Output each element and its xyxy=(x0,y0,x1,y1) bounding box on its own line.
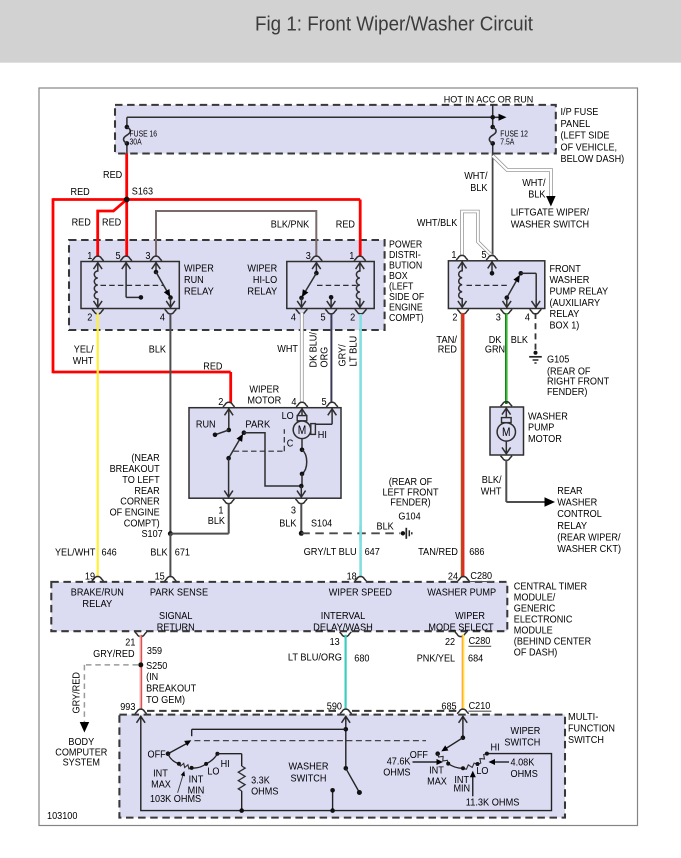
svg-text:GRY/LT BLU: GRY/LT BLU xyxy=(304,547,357,558)
svg-text:4: 4 xyxy=(160,312,166,323)
svg-text:30A: 30A xyxy=(130,137,143,146)
svg-text:RELAY: RELAY xyxy=(557,521,587,532)
svg-text:4: 4 xyxy=(291,312,297,323)
svg-text:FENDER): FENDER) xyxy=(390,498,430,509)
svg-text:RUN: RUN xyxy=(196,420,216,431)
svg-text:S163: S163 xyxy=(132,187,154,198)
svg-text:103K OHMS: 103K OHMS xyxy=(150,794,201,805)
svg-text:BLK: BLK xyxy=(208,516,225,527)
svg-text:WASHER: WASHER xyxy=(550,275,590,286)
svg-text:C280: C280 xyxy=(470,571,492,582)
svg-text:HOT IN ACC OR RUN: HOT IN ACC OR RUN xyxy=(444,94,534,104)
svg-text:ORG: ORG xyxy=(320,347,331,368)
svg-text:BLK: BLK xyxy=(511,335,528,346)
svg-text:2: 2 xyxy=(452,312,458,323)
svg-text:MOTOR: MOTOR xyxy=(528,434,562,445)
svg-text:BLK: BLK xyxy=(149,344,166,355)
svg-text:INT: INT xyxy=(429,766,444,777)
svg-text:WHT/: WHT/ xyxy=(464,171,488,182)
svg-text:103100: 103100 xyxy=(47,811,78,822)
svg-text:BOX: BOX xyxy=(389,271,408,282)
svg-text:684: 684 xyxy=(468,654,484,665)
svg-text:5: 5 xyxy=(321,312,327,323)
svg-text:M: M xyxy=(298,423,307,437)
svg-text:BELOW DASH): BELOW DASH) xyxy=(561,154,625,165)
svg-text:647: 647 xyxy=(365,547,381,558)
svg-text:993: 993 xyxy=(120,702,136,713)
svg-text:GENERIC: GENERIC xyxy=(514,604,556,615)
svg-text:680: 680 xyxy=(354,654,370,665)
svg-text:RED: RED xyxy=(103,170,122,181)
svg-text:WIPER: WIPER xyxy=(247,263,277,274)
svg-text:FENDER): FENDER) xyxy=(547,387,587,398)
svg-text:WHT: WHT xyxy=(277,344,298,355)
svg-text:G104: G104 xyxy=(398,511,421,522)
svg-text:WHT: WHT xyxy=(481,486,502,497)
svg-text:2: 2 xyxy=(218,397,224,408)
svg-text:1: 1 xyxy=(451,250,457,261)
svg-text:TO LEFT: TO LEFT xyxy=(122,475,159,486)
svg-text:WHT/BLK: WHT/BLK xyxy=(417,218,458,229)
svg-text:OHMS: OHMS xyxy=(511,769,539,780)
svg-text:MIN: MIN xyxy=(453,784,470,795)
svg-text:MAX: MAX xyxy=(151,780,171,791)
svg-text:RED: RED xyxy=(71,187,90,198)
svg-text:WIPER SPEED: WIPER SPEED xyxy=(329,587,392,598)
svg-text:HI: HI xyxy=(491,742,500,753)
svg-text:1: 1 xyxy=(87,251,93,262)
svg-text:S250: S250 xyxy=(146,661,168,672)
svg-text:C210: C210 xyxy=(469,701,491,712)
svg-text:SIGNAL: SIGNAL xyxy=(159,611,193,622)
svg-text:(AUXILIARY: (AUXILIARY xyxy=(550,298,601,309)
svg-text:S107: S107 xyxy=(142,529,164,540)
svg-text:3: 3 xyxy=(291,506,297,517)
svg-text:INT: INT xyxy=(153,769,168,780)
svg-text:5: 5 xyxy=(481,250,487,261)
svg-text:HI: HI xyxy=(318,430,327,441)
svg-text:(IN: (IN xyxy=(146,672,158,683)
svg-text:15: 15 xyxy=(155,571,165,582)
svg-text:COMPT): COMPT) xyxy=(124,518,160,529)
svg-text:OHMS: OHMS xyxy=(383,768,411,779)
svg-text:POWER: POWER xyxy=(389,239,422,250)
svg-text:FRONT: FRONT xyxy=(550,264,581,275)
svg-text:MAX: MAX xyxy=(427,776,447,787)
svg-text:21: 21 xyxy=(125,637,135,648)
svg-text:1: 1 xyxy=(349,251,355,262)
svg-text:WASHER SWITCH: WASHER SWITCH xyxy=(511,219,589,230)
svg-text:3: 3 xyxy=(306,251,312,262)
svg-text:RELAY: RELAY xyxy=(184,286,214,297)
svg-text:BLK/PNK: BLK/PNK xyxy=(271,219,310,230)
svg-text:CONTROL: CONTROL xyxy=(557,509,602,520)
svg-text:REAR: REAR xyxy=(134,486,159,497)
svg-text:GRY/RED: GRY/RED xyxy=(93,649,135,660)
svg-text:3: 3 xyxy=(145,251,151,262)
svg-text:OF DASH): OF DASH) xyxy=(514,648,558,659)
svg-text:2: 2 xyxy=(87,312,93,323)
svg-text:BLK: BLK xyxy=(279,519,296,530)
svg-text:YEL/: YEL/ xyxy=(74,344,94,355)
svg-text:BUTION: BUTION xyxy=(389,260,422,271)
svg-text:S104: S104 xyxy=(311,519,333,530)
svg-text:YEL/WHT: YEL/WHT xyxy=(55,547,95,558)
svg-text:MODULE/: MODULE/ xyxy=(514,593,556,604)
svg-text:PARK: PARK xyxy=(245,420,270,431)
svg-text:LO: LO xyxy=(207,767,219,778)
svg-text:REAR: REAR xyxy=(557,486,582,497)
svg-text:13: 13 xyxy=(330,637,340,648)
svg-text:HI-LO: HI-LO xyxy=(253,275,278,286)
svg-text:RED: RED xyxy=(438,345,457,356)
svg-text:LT BLU/ORG: LT BLU/ORG xyxy=(288,653,342,664)
svg-text:WASHER: WASHER xyxy=(289,762,329,773)
svg-text:OFF: OFF xyxy=(410,750,428,761)
svg-text:SWITCH: SWITCH xyxy=(568,735,604,746)
svg-text:686: 686 xyxy=(469,547,485,558)
svg-text:ENGINE: ENGINE xyxy=(389,302,423,313)
svg-text:WHT: WHT xyxy=(73,356,94,367)
svg-text:OFF: OFF xyxy=(148,750,166,761)
svg-text:CENTRAL TIMER: CENTRAL TIMER xyxy=(514,582,587,593)
svg-text:(NEAR: (NEAR xyxy=(131,453,159,464)
svg-text:OF ENGINE: OF ENGINE xyxy=(110,508,160,519)
svg-text:GRY/: GRY/ xyxy=(338,344,349,366)
svg-text:WASHER PUMP: WASHER PUMP xyxy=(427,587,496,598)
svg-text:5: 5 xyxy=(116,251,122,262)
svg-text:OHMS: OHMS xyxy=(251,787,279,798)
svg-text:LO: LO xyxy=(476,766,488,777)
svg-text:PUMP: PUMP xyxy=(528,423,555,434)
svg-text:4: 4 xyxy=(291,397,297,408)
svg-text:671: 671 xyxy=(175,547,191,558)
svg-text:RED: RED xyxy=(72,218,91,229)
svg-text:I/P FUSE: I/P FUSE xyxy=(561,107,599,118)
svg-text:MULTI-: MULTI- xyxy=(568,712,598,723)
svg-text:BREAKOUT: BREAKOUT xyxy=(110,464,160,475)
svg-text:BRAKE/RUN: BRAKE/RUN xyxy=(71,587,124,598)
svg-text:Fig 1: Front Wiper/Washer Circ: Fig 1: Front Wiper/Washer Circuit xyxy=(255,13,533,36)
svg-text:BOX 1): BOX 1) xyxy=(550,320,580,331)
svg-text:RETURN: RETURN xyxy=(157,623,195,634)
svg-text:RED: RED xyxy=(203,362,222,373)
svg-text:(REAR WIPER/: (REAR WIPER/ xyxy=(557,532,620,543)
svg-text:WIPER: WIPER xyxy=(184,263,214,274)
svg-text:M: M xyxy=(502,425,511,439)
svg-text:646: 646 xyxy=(102,547,118,558)
svg-text:TAN/RED: TAN/RED xyxy=(418,547,458,558)
svg-text:4: 4 xyxy=(525,312,531,323)
svg-text:2: 2 xyxy=(350,312,356,323)
svg-text:3: 3 xyxy=(496,312,502,323)
svg-text:WASHER CKT): WASHER CKT) xyxy=(557,544,621,555)
svg-text:SWITCH: SWITCH xyxy=(291,773,327,784)
svg-text:24: 24 xyxy=(448,571,458,582)
svg-text:MOTOR: MOTOR xyxy=(247,396,281,407)
svg-text:PUMP RELAY: PUMP RELAY xyxy=(550,287,609,298)
svg-text:COMPT): COMPT) xyxy=(389,313,424,324)
svg-text:18: 18 xyxy=(347,571,357,582)
svg-text:RED: RED xyxy=(102,218,121,229)
svg-text:G105: G105 xyxy=(547,355,570,366)
svg-text:LIFTGATE WIPER/: LIFTGATE WIPER/ xyxy=(511,208,590,219)
svg-text:BLK: BLK xyxy=(528,190,545,201)
svg-text:7.5A: 7.5A xyxy=(500,137,515,146)
svg-text:5: 5 xyxy=(322,397,328,408)
svg-text:WHT/: WHT/ xyxy=(522,178,546,189)
svg-text:BLK: BLK xyxy=(150,547,167,558)
svg-text:GRY/RED: GRY/RED xyxy=(72,672,83,714)
svg-text:PARK SENSE: PARK SENSE xyxy=(150,587,209,598)
svg-text:WIPER: WIPER xyxy=(511,726,541,737)
svg-text:SWITCH: SWITCH xyxy=(504,737,540,748)
svg-text:22: 22 xyxy=(445,637,455,648)
svg-text:CORNER: CORNER xyxy=(120,497,159,508)
svg-text:19: 19 xyxy=(85,571,95,582)
svg-text:359: 359 xyxy=(147,646,163,657)
svg-text:OF VEHICLE,: OF VEHICLE, xyxy=(561,142,618,153)
svg-text:WIPER: WIPER xyxy=(455,611,485,622)
svg-text:MODULE: MODULE xyxy=(514,626,553,637)
svg-text:C: C xyxy=(287,439,294,450)
svg-text:MODE SELECT: MODE SELECT xyxy=(428,623,493,634)
svg-text:BREAKOUT: BREAKOUT xyxy=(146,684,196,695)
svg-text:4.08K: 4.08K xyxy=(511,758,535,769)
svg-text:ELECTRONIC: ELECTRONIC xyxy=(514,615,573,626)
svg-text:DK BLU/: DK BLU/ xyxy=(309,332,320,368)
svg-text:RELAY: RELAY xyxy=(82,599,112,610)
svg-text:WASHER: WASHER xyxy=(557,498,597,509)
svg-text:FUNCTION: FUNCTION xyxy=(568,724,615,735)
svg-text:RUN: RUN xyxy=(184,275,204,286)
svg-text:LO: LO xyxy=(282,411,294,422)
svg-text:DISTRI-: DISTRI- xyxy=(389,250,421,261)
svg-text:(LEFT: (LEFT xyxy=(389,281,413,292)
svg-text:HI: HI xyxy=(221,759,230,770)
svg-text:GRN: GRN xyxy=(485,345,505,356)
svg-text:INTERVAL: INTERVAL xyxy=(321,611,366,622)
svg-text:BLK/: BLK/ xyxy=(482,475,502,486)
svg-text:47.6K: 47.6K xyxy=(387,756,411,767)
svg-text:PNK/YEL: PNK/YEL xyxy=(417,654,456,665)
svg-text:SIDE OF: SIDE OF xyxy=(389,292,424,303)
svg-text:SYSTEM: SYSTEM xyxy=(63,758,100,769)
svg-text:PANEL: PANEL xyxy=(561,119,591,130)
svg-text:WIPER: WIPER xyxy=(249,384,279,395)
svg-text:BLK: BLK xyxy=(377,521,394,532)
svg-text:WASHER: WASHER xyxy=(528,411,568,422)
svg-text:LT BLU: LT BLU xyxy=(349,336,360,367)
svg-text:BLK: BLK xyxy=(470,183,487,194)
svg-text:11.3K OHMS: 11.3K OHMS xyxy=(466,797,520,808)
svg-text:RELAY: RELAY xyxy=(550,309,580,320)
svg-text:C280: C280 xyxy=(469,636,491,647)
svg-text:RELAY: RELAY xyxy=(247,286,277,297)
svg-text:DELAY/WASH: DELAY/WASH xyxy=(313,623,373,634)
svg-text:(LEFT SIDE: (LEFT SIDE xyxy=(561,131,610,142)
svg-text:3.3K: 3.3K xyxy=(251,775,270,786)
svg-text:(BEHIND CENTER: (BEHIND CENTER xyxy=(514,637,591,648)
svg-text:INT: INT xyxy=(189,774,204,785)
svg-text:TO GEM): TO GEM) xyxy=(146,695,185,706)
svg-text:RED: RED xyxy=(336,219,355,230)
